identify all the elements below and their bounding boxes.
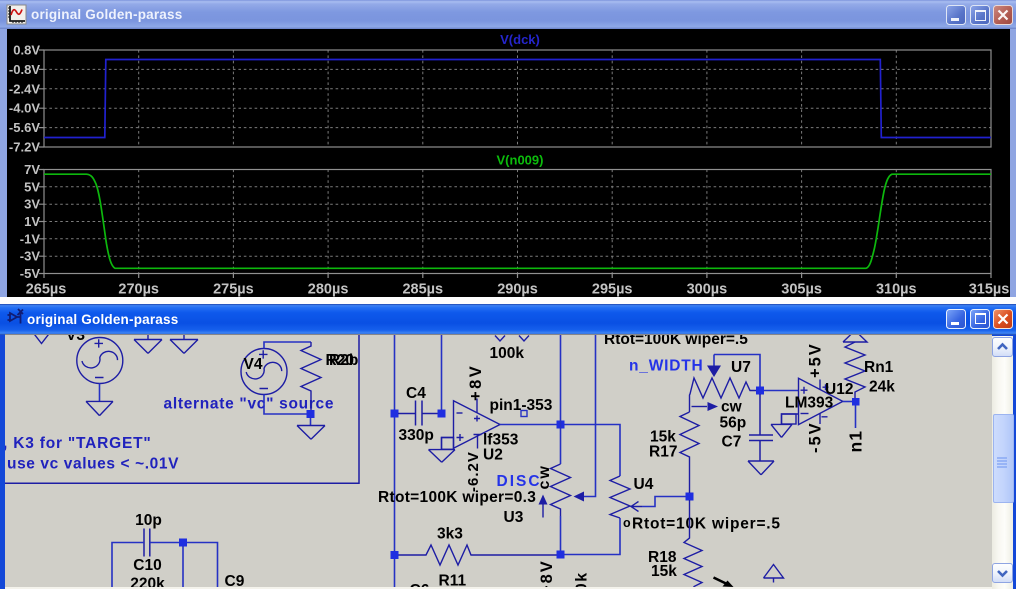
resistor R20 <box>301 342 321 414</box>
svg-text:R17: R17 <box>649 444 677 461</box>
wire V4 bottom to node <box>264 395 311 415</box>
wire C10 left leg <box>112 543 144 588</box>
svg-text:100k: 100k <box>574 571 591 588</box>
svg-text:310µs: 310µs <box>876 282 917 298</box>
svg-text:Rn1: Rn1 <box>864 359 894 376</box>
voltage source V3 <box>77 338 123 384</box>
wire U2 output <box>500 424 557 426</box>
wire R11 node to U4 bottom <box>564 518 620 555</box>
U4 wiper open arrow <box>631 502 642 512</box>
svg-text:-6.2V: -6.2V <box>465 451 482 492</box>
svg-text:-2.4V: -2.4V <box>9 81 40 96</box>
svg-text:100k: 100k <box>490 345 525 362</box>
svg-text:-1V: -1V <box>20 231 41 246</box>
capacitor C4 <box>398 401 438 426</box>
svg-text:Rtot=100K wiper=0.3: Rtot=100K wiper=0.3 <box>378 489 536 506</box>
svg-text:265µs: 265µs <box>26 282 67 298</box>
svg-text:270µs: 270µs <box>118 282 159 298</box>
svg-text:U3: U3 <box>504 509 524 526</box>
potentiometer U4 <box>610 476 630 518</box>
ground below U2 <box>429 450 456 463</box>
wire V3 to ground <box>99 384 101 402</box>
svg-text:5V: 5V <box>24 179 40 194</box>
svg-text:275µs: 275µs <box>213 282 254 298</box>
ground flag top-left (partial) <box>33 333 50 344</box>
svg-text:305µs: 305µs <box>781 282 822 298</box>
power flag bottom <box>764 565 784 583</box>
resistor stub top (100k left) <box>495 336 505 342</box>
window1 icon <box>6 4 27 25</box>
node junction R11 right <box>557 551 565 559</box>
ground flag top-middle 2 <box>170 334 198 353</box>
svg-text:V3: V3 <box>66 335 85 344</box>
svg-text:315µs: 315µs <box>969 282 1010 298</box>
U7 cw arrow <box>692 406 708 408</box>
U7 wiper down arrow <box>713 355 715 367</box>
ground below C7 <box>748 461 774 475</box>
svg-text:-5V: -5V <box>20 266 41 281</box>
svg-text:Rtot=10K wiper=.5: Rtot=10K wiper=.5 <box>632 516 781 533</box>
U3 wiper arrowhead <box>574 492 585 502</box>
op-amp U2 lf353 <box>454 399 501 449</box>
svg-text:R2b: R2b <box>329 352 358 369</box>
window2 icon <box>7 308 25 326</box>
wire +8V rail <box>441 335 443 410</box>
svg-text:n_WIDTH: n_WIDTH <box>629 358 703 375</box>
wire node to U12 +input <box>764 390 799 392</box>
wire U2 +input to ground with offset box <box>442 438 454 450</box>
svg-text:56p: 56p <box>720 415 747 432</box>
ground below U12 input <box>771 424 792 437</box>
wire V4 top to R20 <box>264 342 311 349</box>
svg-text:285µs: 285µs <box>402 282 443 298</box>
svg-text:V4: V4 <box>244 356 263 373</box>
svg-text:-0.8V: -0.8V <box>9 62 40 77</box>
wire net dck long vertical <box>394 335 396 588</box>
wire U12 output <box>843 401 852 403</box>
svg-text:LM393: LM393 <box>785 395 834 412</box>
svg-text:-5V: -5V <box>807 421 825 453</box>
svg-text:+8V: +8V <box>467 364 485 401</box>
resistor Rn1 <box>845 342 865 398</box>
node junction V4/R20/gnd <box>307 410 315 418</box>
wire U12 -input to ground with offset box <box>782 414 799 424</box>
svg-text:use vc values < ~.01V: use vc values < ~.01V <box>7 456 179 473</box>
capacitor C7 <box>749 394 773 461</box>
svg-text:15k: 15k <box>651 563 677 580</box>
wire U2 out to U4 top <box>564 425 620 477</box>
svg-text:alternate "vc" source: alternate "vc" source <box>164 396 335 413</box>
wire disc net vertical <box>560 335 562 552</box>
node junction U12 out / Rn1 <box>852 398 860 406</box>
svg-text:Rtot=100K wiper=.5: Rtot=100K wiper=.5 <box>604 335 748 348</box>
ground flag top-middle 1 <box>134 334 162 353</box>
resistor R11 <box>399 545 558 565</box>
wire U7 top <box>714 355 760 388</box>
svg-text:10p: 10p <box>135 512 162 529</box>
voltage source V4 <box>241 349 287 395</box>
wire C9 middle leg <box>182 546 184 588</box>
window1 buttons <box>946 5 966 25</box>
svg-text:-4.0V: -4.0V <box>9 101 40 116</box>
node junction C4 right <box>438 410 446 418</box>
resistor R17 <box>680 412 699 493</box>
node junction R17/R18/U4 <box>686 493 694 501</box>
svg-text:C10: C10 <box>133 557 161 574</box>
svg-text:C9: C9 <box>225 573 245 588</box>
resistor R18 <box>684 500 702 589</box>
resistor stub top (100k right) <box>519 336 529 342</box>
power flag +5V above Rn1 <box>843 331 867 343</box>
mouse cursor <box>714 578 729 585</box>
svg-text:+8V: +8V <box>538 559 556 588</box>
node junction R11 left <box>391 551 399 559</box>
node junction U2 out <box>557 421 565 429</box>
svg-text:7V: 7V <box>24 162 40 177</box>
svg-text:+5V: +5V <box>807 342 825 378</box>
svg-text:U7: U7 <box>731 359 751 376</box>
waveform plot svg <box>0 0 1016 304</box>
svg-text:V(dck): V(dck) <box>500 32 540 47</box>
svg-text:300µs: 300µs <box>687 282 728 298</box>
svg-text:, K3 for "TARGET": , K3 for "TARGET" <box>5 435 152 452</box>
schematic canvas <box>5 334 992 589</box>
svg-text:C4: C4 <box>406 385 426 402</box>
ground below V4 <box>297 426 325 440</box>
capacitor C10 <box>144 529 150 557</box>
svg-text:DISC: DISC <box>497 473 542 490</box>
svg-text:0.8V: 0.8V <box>13 43 40 58</box>
wire U3 wiper from net <box>580 335 596 497</box>
window2 buttons <box>946 309 966 329</box>
pane 1 grid <box>44 50 991 274</box>
svg-text:-3V: -3V <box>20 249 41 264</box>
comparator U12 LM393 <box>799 378 843 424</box>
comment box outline <box>4 335 359 483</box>
svg-text:1V: 1V <box>24 214 40 229</box>
node junction C4 left <box>391 410 399 418</box>
potentiometer U3 <box>551 464 571 516</box>
wire C10 right + C9 leg <box>150 543 218 588</box>
svg-text:cw: cw <box>721 399 743 416</box>
svg-text:R11: R11 <box>439 573 467 589</box>
node junction C9 top <box>179 539 187 547</box>
port marker pin1 <box>521 411 527 417</box>
svg-text:V(n009): V(n009) <box>497 153 544 168</box>
wire U4 wiper to node <box>642 497 686 507</box>
svg-text:3k3: 3k3 <box>437 526 463 543</box>
svg-text:U4: U4 <box>634 476 654 493</box>
svg-text:330p: 330p <box>399 427 434 444</box>
svg-text:24k: 24k <box>869 379 895 396</box>
wire node to ground <box>310 417 312 426</box>
wire U12 out to n1 <box>855 406 857 429</box>
svg-text:295µs: 295µs <box>592 282 633 298</box>
svg-text:3V: 3V <box>24 197 40 212</box>
svg-text:290µs: 290µs <box>497 282 538 298</box>
svg-text:-5.6V: -5.6V <box>9 120 40 135</box>
svg-text:280µs: 280µs <box>308 282 349 298</box>
node junction U7/C7/U12 <box>756 387 764 395</box>
svg-text:o: o <box>623 516 631 530</box>
svg-text:U2: U2 <box>483 447 503 464</box>
svg-text:n1: n1 <box>846 430 866 452</box>
svg-text:C7: C7 <box>722 434 742 451</box>
vertical scrollbar <box>992 336 1013 589</box>
svg-text:-7.2V: -7.2V <box>9 140 40 155</box>
potentiometer U7 <box>690 378 758 412</box>
ground below V3 <box>86 401 113 415</box>
U3 cw indicator arrow <box>542 503 544 518</box>
